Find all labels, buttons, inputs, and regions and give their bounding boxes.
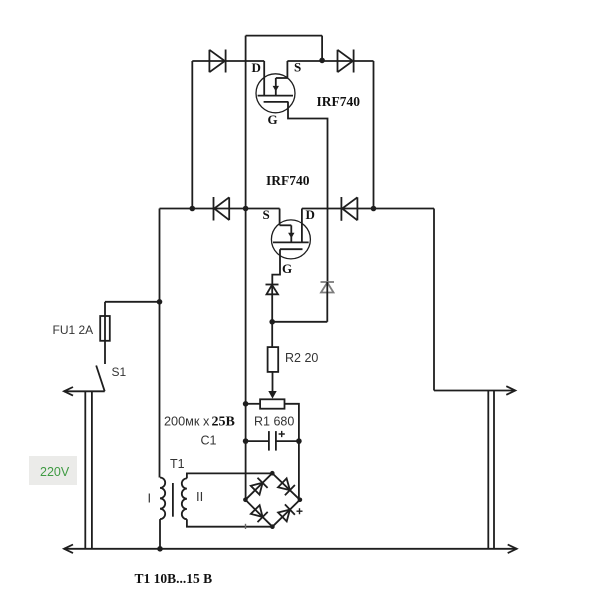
svg-text:T1: T1 [170,457,185,471]
transformer core [172,483,174,517]
svg-text:S: S [263,207,270,222]
potentiometer R1 [260,399,284,408]
diode VD4 row2-right [341,197,357,221]
zener/diode VD5 left small [266,285,279,322]
node dot R1 left [243,401,249,407]
wire top loop vertical long (S of upper FET to lower bus) [245,36,247,500]
capacitor C1 [246,431,299,451]
diode VD2 top-right [338,50,354,73]
zener/diode VD6 right small (gray) [321,282,335,293]
fuse FU1 [100,302,159,364]
svg-text:S1: S1 [112,365,127,379]
wire R1 left [246,403,261,405]
svg-text:I: I [148,491,152,506]
node dot row2 x373 [371,206,377,212]
wire left vertical row1 to row2 [191,61,193,209]
node dot row2 x192 [190,206,196,212]
svg-text:G: G [282,261,292,276]
wire left bus down (row2 to transformer primary) [159,209,161,478]
wire mains line1 with left arrow [64,387,105,396]
diode VD1 top-left [209,50,225,73]
svg-text:220V: 220V [40,465,70,479]
svg-text:25В: 25В [212,415,235,430]
wire below right zener [326,282,328,322]
transformer T1 secondary coil [182,478,187,519]
label 220V box [29,456,77,485]
svg-text:R2 20: R2 20 [285,351,318,365]
bridge diode bottom-right [278,504,295,521]
node dot C1 right [296,438,302,444]
wire row1 left [192,60,264,62]
svg-text:200мк x: 200мк x [164,415,210,429]
transistor U2 IRF740 lower [271,209,310,259]
svg-text:FU1 2A: FU1 2A [53,323,94,337]
node dot gate junction [269,319,275,325]
wire secondary top to bridge [187,473,272,478]
svg-text:IRF740: IRF740 [317,94,361,109]
wire secondary bottom to bridge [187,519,273,527]
output pair line b [493,391,495,549]
mains pair line b [91,391,93,549]
bridge diode bottom-left [251,505,268,522]
wire R1 right down to bridge plus [285,404,299,500]
wire output top with right arrow [434,386,515,395]
node dot bottom primary [157,546,163,552]
bridge diode top-left [251,478,268,495]
plus sign at C1 [279,431,285,437]
wire bottom line with arrows [64,545,517,554]
bridge diode top-right [278,478,295,495]
wire right vertical row1 to row2 [373,61,375,209]
wire top loop right side [321,36,323,61]
svg-text:D: D [252,60,261,75]
svg-text:G: G [268,112,278,127]
wire R2 to R1 wiper with arrow [272,372,274,392]
wire row2 right [302,208,434,210]
wire right vertical to output [433,209,435,391]
mains pair line a [84,391,86,549]
diode VD3 row2-left [214,197,230,221]
node dot fuse to bus [157,299,163,305]
svg-text:D: D [306,207,315,222]
svg-text:C1: C1 [201,434,217,448]
svg-text:R1 680: R1 680 [254,415,294,429]
plus sign at bridge output [297,508,303,514]
resistor R2 [268,347,279,372]
transformer T1 primary coil [160,478,165,520]
switch S1 [96,366,105,392]
wire gate of U2 down to left zener [272,249,280,284]
bridge rectifier VD7 [243,471,302,529]
svg-text:T1 10В...15 В: T1 10В...15 В [135,571,213,586]
wire top loop horizontal [246,35,323,37]
wire gate of U1 down to right zener [288,102,328,282]
svg-text:S: S [294,60,301,75]
wire row1 right [287,60,373,62]
transistor U1 IRF740 upper [256,61,295,113]
svg-text:II: II [196,489,203,504]
wire joining zeners [272,321,327,323]
wire primary to bottom line [159,519,161,549]
output pair line a [487,391,489,549]
wire row2 left [160,208,280,210]
wire to R2 [271,322,273,347]
node dot C1 left [243,438,249,444]
artifact tick on bottom ac wire [245,524,247,529]
svg-text:IRF740: IRF740 [266,173,310,188]
node dot row2 x245 [243,206,249,212]
node dot on S wire of upper FET [319,58,325,64]
